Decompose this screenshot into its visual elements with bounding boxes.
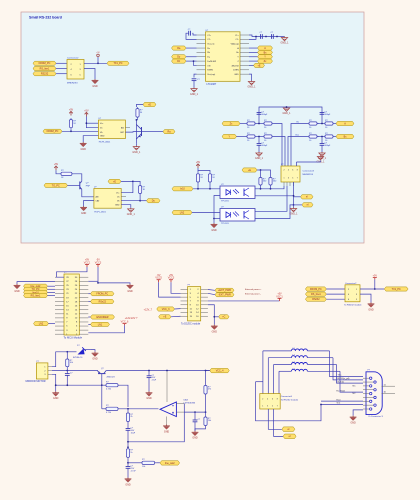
- IC U2 HCPL-0601: [98, 120, 125, 139]
- wire Q3 collector rail: [106, 370, 212, 372]
- port RS232 (P2): [91, 299, 115, 303]
- svg-text:FROM_PC: FROM_PC: [96, 293, 108, 296]
- connector J3 bottom stubs: [283, 182, 285, 186]
- stub U2 AN: [125, 127, 130, 129]
- port Dy (U3 out): [147, 199, 161, 203]
- wire R24 to port: [156, 462, 160, 464]
- wire rx_pd lead: [330, 357, 334, 359]
- wire C1+ up: [249, 35, 285, 37]
- svg-text:Q?: Q?: [101, 368, 105, 370]
- resistor R20 47k: [204, 384, 211, 396]
- wire FROM_PC to connector: [56, 62, 67, 64]
- power +5V (opto pullups): [196, 161, 201, 168]
- capacitor C8 22uF: [147, 375, 157, 382]
- wire to out1: [294, 196, 301, 198]
- svg-text:PNP: PNP: [86, 185, 91, 187]
- svg-text:10k: 10k: [142, 466, 145, 468]
- svg-text:C?: C?: [198, 419, 201, 421]
- wire R1-R2: [257, 123, 263, 125]
- port E1 (opto1 top): [143, 102, 156, 106]
- svg-text:6: 6: [272, 398, 273, 400]
- wire E3 rail: [257, 170, 271, 176]
- wire P7 pin8 to VCC1: [208, 300, 280, 302]
- svg-text:GND: GND: [234, 74, 239, 76]
- ground GND_1 (U1 left): [190, 88, 199, 96]
- port TO_PC: [44, 183, 68, 187]
- port RS_line1 (J4): [305, 292, 326, 296]
- ground GND_1 (opto out): [290, 208, 299, 216]
- svg-text:8: 8: [277, 398, 278, 400]
- svg-text:Bx: Bx: [297, 121, 299, 123]
- wire opto1 c: [255, 186, 284, 189]
- wire gnd stem (motor): [55, 385, 57, 391]
- capacitor C7 (motor): [65, 373, 73, 376]
- power VCC_6 +12V-22V: [121, 317, 138, 325]
- wire +C to chain: [214, 316, 218, 318]
- wire in2: [192, 212, 220, 214]
- port Zx (U1): [258, 59, 273, 63]
- svg-text:P?: P?: [188, 284, 191, 286]
- wire line_out2 (P2): [48, 285, 56, 287]
- inductor L4: [291, 368, 307, 371]
- wire cap to GND_1: [193, 81, 195, 88]
- wire node down: [127, 409, 129, 412]
- svg-text:GND: GND: [192, 437, 198, 440]
- svg-text:GND: GND: [100, 136, 105, 138]
- port +E (P7): [159, 315, 171, 319]
- wire Y to R: [237, 136, 246, 138]
- wire R6 to conn: [291, 124, 308, 167]
- resistor R7b 10: [324, 133, 335, 142]
- resistor R13 1K: [196, 172, 203, 183]
- svg-text:GND_1: GND_1: [127, 213, 136, 216]
- wire VCC_6 to P2: [88, 325, 124, 332]
- wire pin2 to base: [52, 370, 98, 372]
- svg-text:5: 5: [272, 405, 273, 407]
- wire VCC3b to P7: [171, 282, 181, 293]
- connector P2 right stubs: [79, 276, 88, 278]
- resistor R19 4.73k: [105, 405, 120, 414]
- svg-text:Dy: Dy: [207, 57, 209, 59]
- wire R8 to conn: [288, 137, 308, 167]
- resistor R4 10: [263, 133, 274, 142]
- resistor R18 4.73k: [105, 382, 120, 391]
- wire +5V rail: [198, 168, 210, 172]
- svg-text:5: 5: [292, 177, 293, 179]
- svg-text:NC: NC: [353, 393, 357, 395]
- svg-text:FROM_PC: FROM_PC: [310, 288, 322, 291]
- port Ra: [172, 46, 187, 50]
- wire ON link: [194, 61, 197, 65]
- power VCC1 (+5V right): [276, 293, 283, 301]
- svg-text:VCC1: VCC1: [84, 261, 91, 264]
- wire R5-R6: [318, 123, 324, 125]
- IC U1 LTC1387: [206, 32, 241, 82]
- svg-text:D?: D?: [77, 345, 80, 347]
- connector P1 motor: [36, 363, 48, 379]
- connector P7 left stubs: [181, 289, 188, 291]
- wire R17 bottom to node: [66, 368, 68, 370]
- svg-text:D-Connector 9: D-Connector 9: [369, 415, 384, 418]
- svg-text:+5V: +5V: [196, 161, 201, 164]
- port line10 (P2): [24, 290, 48, 294]
- svg-text:Small RS-232 board: Small RS-232 board: [29, 16, 62, 20]
- capacitor C10 10uF: [126, 428, 136, 435]
- svg-text:+5V: +5V: [54, 163, 59, 166]
- svg-text:BZX84-C6: BZX84-C6: [73, 357, 83, 359]
- wire 485/232: [249, 64, 254, 66]
- svg-text:Dz/SLEW: Dz/SLEW: [207, 61, 216, 63]
- junction R13/R14 bottoms: [197, 184, 199, 189]
- wire Test: [321, 404, 363, 406]
- resistor R3 10: [246, 133, 257, 142]
- power +5V (R9): [69, 108, 74, 115]
- wire ext- stub: [208, 293, 215, 294]
- port A (U1): [258, 46, 273, 50]
- svg-text:GND_1: GND_1: [190, 93, 199, 96]
- power VCC circle: [96, 52, 100, 57]
- ground GND (optos): [211, 223, 218, 232]
- svg-text:GND_1: GND_1: [255, 157, 264, 160]
- wire conn3 top-right: [296, 162, 298, 166]
- svg-text:ln10: ln10: [180, 188, 185, 191]
- port +EXT_PWR: [215, 288, 234, 292]
- svg-text:Vcc(+5): Vcc(+5): [207, 44, 214, 46]
- port out1 (opto): [301, 195, 314, 199]
- svg-text:TPL181: TPL181: [221, 223, 229, 225]
- ground GND (opamp): [163, 425, 170, 434]
- wire TXa: [330, 351, 364, 377]
- svg-text:LTC1387: LTC1387: [207, 83, 217, 86]
- wire R17 top: [66, 352, 68, 358]
- svg-text:GND_1: GND_1: [248, 86, 257, 89]
- svg-text:C7: C7: [70, 373, 73, 375]
- svg-text:External power -: External power -: [245, 293, 261, 296]
- wire DB9 gnd: [353, 410, 363, 416]
- capacitor C4: [271, 32, 274, 39]
- port LN1 (P2): [91, 322, 110, 326]
- svg-text:2: 2: [284, 170, 285, 172]
- ground GND (P2 left): [14, 284, 21, 293]
- wire C1- up: [249, 37, 256, 40]
- svg-text:Vcc(cap): Vcc(cap): [207, 74, 215, 76]
- svg-text:GND: GND: [92, 358, 98, 361]
- svg-text:47k: 47k: [208, 389, 211, 391]
- wire RS232 to connector: [56, 73, 67, 75]
- capacitor C2 (Vcc cap): [192, 79, 201, 81]
- capacitor C7a 100pF: [257, 112, 268, 116]
- svg-text:GND_1: GND_1: [132, 151, 141, 154]
- svg-text:MHDR2X3: MHDR2X3: [67, 83, 78, 85]
- wire cap to gnd right: [321, 145, 323, 152]
- wire loop left: [256, 382, 322, 421]
- port -EXT_PWR: [215, 293, 234, 297]
- port A (filter): [336, 121, 354, 125]
- svg-text:GND: GND: [14, 290, 20, 293]
- inductor L1: [291, 348, 307, 351]
- svg-text:Connector3: Connector3: [303, 170, 315, 173]
- ground GND_1 (U3): [127, 208, 136, 216]
- wire Ra: [186, 47, 197, 49]
- power +5V (J4): [373, 275, 378, 280]
- wire R18 left: [102, 384, 105, 386]
- port Dy (U1): [172, 55, 187, 59]
- svg-text:+E: +E: [258, 64, 261, 67]
- wire R15 top: [260, 170, 262, 176]
- capacitor C11 4.7uF: [126, 466, 137, 473]
- ground GND (U2): [80, 142, 87, 151]
- port Ra (opto1 out): [163, 130, 175, 134]
- IC U3 HCPL-0601: [94, 189, 121, 209]
- wire pin1 up rail: [52, 352, 67, 367]
- svg-text:GND: GND: [81, 148, 87, 151]
- wire right cap-bottom branch: [321, 137, 323, 144]
- resistor R8 10: [308, 133, 319, 142]
- ground GND (U3): [80, 206, 87, 215]
- wire U3 GND down: [121, 205, 131, 208]
- wire Rsvr: [321, 400, 363, 402]
- svg-text:RS_line1: RS_line1: [31, 294, 41, 297]
- svg-text:GND: GND: [368, 308, 374, 311]
- svg-text:GND: GND: [92, 85, 98, 88]
- port out2 (opto): [302, 203, 313, 207]
- wire +5V to Vcc: [86, 117, 98, 128]
- wire R23 down: [127, 459, 129, 467]
- wire inductor drop verticals: [262, 351, 264, 394]
- wire r13 stem: [197, 171, 199, 173]
- wire row28 to rail: [88, 280, 98, 282]
- wire R21 top: [205, 412, 207, 415]
- wire Vcc(cap) down: [194, 74, 197, 77]
- wire C2- loop: [186, 33, 197, 39]
- wire R10 bottom: [137, 119, 139, 120]
- port FROM_PC: [33, 61, 56, 65]
- wire C8 top stem: [148, 371, 150, 376]
- svg-text:Connector2: Connector2: [345, 282, 357, 285]
- svg-text:+E: +E: [148, 103, 151, 106]
- transistor Q2 PNP: [79, 181, 90, 189]
- ground GND section A: [92, 79, 99, 88]
- port TO_PC (P2): [24, 287, 48, 291]
- connector J6 D-Connector 9: [366, 369, 384, 418]
- optocoupler U4 TPL181: [220, 184, 255, 203]
- ground GND (C11): [125, 478, 132, 487]
- inductor L3: [291, 362, 307, 365]
- wire FROM_PC (P2): [88, 293, 90, 295]
- svg-text:+5V: +5V: [373, 275, 378, 278]
- svg-text:1k: 1k: [130, 452, 132, 454]
- wire opamp V- to gnd: [166, 417, 168, 425]
- svg-text:P?: P?: [368, 369, 371, 371]
- wire FROM_PC to chip: [62, 130, 98, 132]
- transistor Q1: [136, 125, 148, 140]
- wire Q3 base down: [101, 374, 103, 409]
- junction R9 bottom: [70, 130, 72, 132]
- port line_out1: [160, 461, 180, 465]
- port E2 (U3 top): [108, 179, 121, 183]
- svg-text:1: 1: [262, 405, 263, 407]
- svg-text:6: 6: [292, 170, 293, 172]
- connector J6 pins: [370, 377, 372, 379]
- wire loop top: [256, 381, 263, 383]
- wire R15 bottom / R16 bottom: [260, 187, 262, 189]
- wire R3-R4: [257, 136, 263, 138]
- svg-text:GND: GND: [127, 290, 133, 293]
- wire RS232 (P2): [88, 301, 90, 303]
- wire Zx: [249, 60, 258, 62]
- wire R19 right to opamp: [120, 408, 159, 410]
- wire R19 left: [102, 408, 105, 410]
- ground GND_1 (filter br): [318, 152, 327, 160]
- svg-text:GND: GND: [146, 397, 152, 400]
- ground GND (DB9): [350, 416, 357, 425]
- resistor R17 10k: [66, 358, 73, 369]
- wire GND pin down: [249, 74, 252, 80]
- wire opto2 led low: [214, 218, 220, 220]
- svg-text:TPL181: TPL181: [221, 201, 229, 203]
- connector J4 MHDR2X3: [345, 285, 360, 302]
- port Bx (U1): [258, 50, 273, 54]
- wire J4 in3: [326, 298, 345, 300]
- port TX1_PC: [107, 61, 129, 65]
- port RS232 (J4): [305, 297, 326, 301]
- IC U1 right pin stubs: [240, 34, 249, 36]
- port Y (filter): [222, 134, 237, 138]
- svg-text:Connector2: Connector2: [67, 56, 79, 59]
- wire Q1 to port: [148, 131, 163, 133]
- svg-text:+E: +E: [248, 169, 251, 172]
- wire C8 bottom stem: [148, 378, 150, 392]
- wire LN2 (P2): [49, 323, 56, 325]
- svg-text:Bxz: Bxz: [296, 134, 299, 136]
- capacitor C7b 100pF: [320, 112, 331, 116]
- power VCC1 +5V: [84, 259, 91, 267]
- svg-text:+E: +E: [163, 316, 166, 319]
- svg-text:LN1: LN1: [98, 323, 103, 326]
- optocoupler U5 TPL181: [220, 207, 255, 226]
- port Bx (filter): [336, 134, 354, 138]
- junction caps rail: [265, 36, 267, 38]
- connector P2 MCU header: [64, 274, 79, 335]
- ground GND (P7): [211, 325, 218, 334]
- wire Dz: [186, 60, 197, 62]
- wire +5V drop (J4): [374, 279, 376, 289]
- power +5V (U2 Vcc): [84, 109, 89, 116]
- resistor R24 10k: [141, 459, 157, 468]
- svg-text:2k: 2k: [130, 416, 132, 418]
- svg-text:+5V: +5V: [69, 108, 74, 111]
- svg-text:485/232: 485/232: [231, 65, 239, 67]
- svg-text:3: 3: [288, 177, 289, 179]
- svg-text:100pF: 100pF: [325, 114, 331, 116]
- svg-text:NC: NC: [353, 386, 357, 388]
- wire Q2 emitter to AN: [82, 189, 94, 197]
- svg-text:+12V_7: +12V_7: [144, 308, 153, 311]
- wire +5V to R11: [56, 170, 60, 174]
- power +5V (R11): [54, 163, 59, 170]
- wire collector: [135, 120, 137, 144]
- svg-text:GND_1: GND_1: [283, 112, 292, 115]
- inductor L2: [291, 355, 307, 358]
- svg-text:C1-: C1-: [235, 39, 239, 41]
- ground GND (divider): [192, 431, 199, 440]
- svg-text:To MCU Module: To MCU Module: [64, 336, 83, 340]
- port E (U1): [254, 63, 265, 67]
- svg-text:line_out2: line_out2: [165, 462, 175, 465]
- wire rail to port VCC_4: [206, 370, 210, 372]
- svg-text:GND: GND: [53, 397, 59, 400]
- capacitor C3: [260, 32, 263, 39]
- port +C (P7): [219, 315, 230, 319]
- svg-text:2: 2: [262, 398, 263, 400]
- svg-text:100pF: 100pF: [325, 145, 331, 147]
- ground GND_1 (Q1): [132, 146, 141, 154]
- port Y (U1): [258, 55, 273, 59]
- resistor R9 1K: [69, 118, 76, 129]
- svg-text:VCC_4: VCC_4: [216, 369, 224, 372]
- svg-text:4: 4: [288, 170, 289, 172]
- wire port to R12: [133, 181, 140, 184]
- ground GND_1 (U1 right): [248, 81, 257, 89]
- wire gnd rail top: [259, 107, 322, 124]
- ground GND (P2 right): [127, 284, 134, 293]
- wire Q1 emitter gnd: [135, 144, 137, 146]
- svg-text:Connector5: Connector5: [281, 395, 293, 398]
- wire opamp V+: [166, 371, 168, 403]
- wire C2+ loop: [192, 33, 196, 35]
- resistor R22 2k: [126, 412, 133, 424]
- wire Dy: [186, 56, 197, 58]
- svg-text:LN2: LN2: [180, 211, 185, 214]
- svg-text:10k: 10k: [70, 362, 73, 364]
- port FROM_PC (P2): [91, 292, 115, 296]
- resistor R12 1K: [139, 184, 146, 195]
- svg-text:GND: GND: [164, 430, 170, 433]
- wire R22 to C10: [127, 423, 129, 429]
- wire Y: [249, 56, 258, 58]
- resistor R23 1k: [126, 447, 133, 459]
- svg-text:HCPL-0601: HCPL-0601: [99, 141, 111, 143]
- svg-text:4.7uF: 4.7uF: [131, 470, 137, 472]
- svg-text:To RS232 module: To RS232 module: [344, 304, 362, 306]
- resistor R6 10: [308, 120, 319, 129]
- junction Dz/ON: [193, 60, 195, 62]
- svg-text:GND: GND: [81, 212, 87, 215]
- port LN2 (P2): [34, 322, 49, 326]
- svg-text:RS232: RS232: [312, 298, 320, 301]
- svg-text:100pF: 100pF: [262, 145, 268, 147]
- wire C9 top stem: [194, 412, 196, 420]
- svg-text:TX1_PC: TX1_PC: [392, 288, 401, 291]
- wire rx_pd: [333, 358, 363, 380]
- resistor R10 30: [136, 107, 143, 119]
- power VCC5 -5V: [155, 274, 162, 282]
- svg-text:VCC1: VCC1: [276, 295, 283, 298]
- wire A: [249, 47, 258, 49]
- wire C11 down: [127, 468, 129, 477]
- wire R20 bottom: [205, 396, 207, 413]
- ground GND_1 (above conn3): [317, 156, 326, 164]
- svg-text:FROM_PC: FROM_PC: [47, 130, 59, 133]
- svg-text:ENCODER: ENCODER: [97, 316, 109, 319]
- power +5V stem: [97, 57, 99, 64]
- port TX1_PC (J4): [384, 287, 408, 291]
- svg-text:+E: +E: [113, 180, 116, 183]
- wire R11 to Q2: [73, 174, 81, 182]
- connector P7 right stubs: [201, 289, 208, 291]
- svg-text:4.73k: 4.73k: [106, 389, 111, 391]
- wire J4 in2: [326, 293, 345, 295]
